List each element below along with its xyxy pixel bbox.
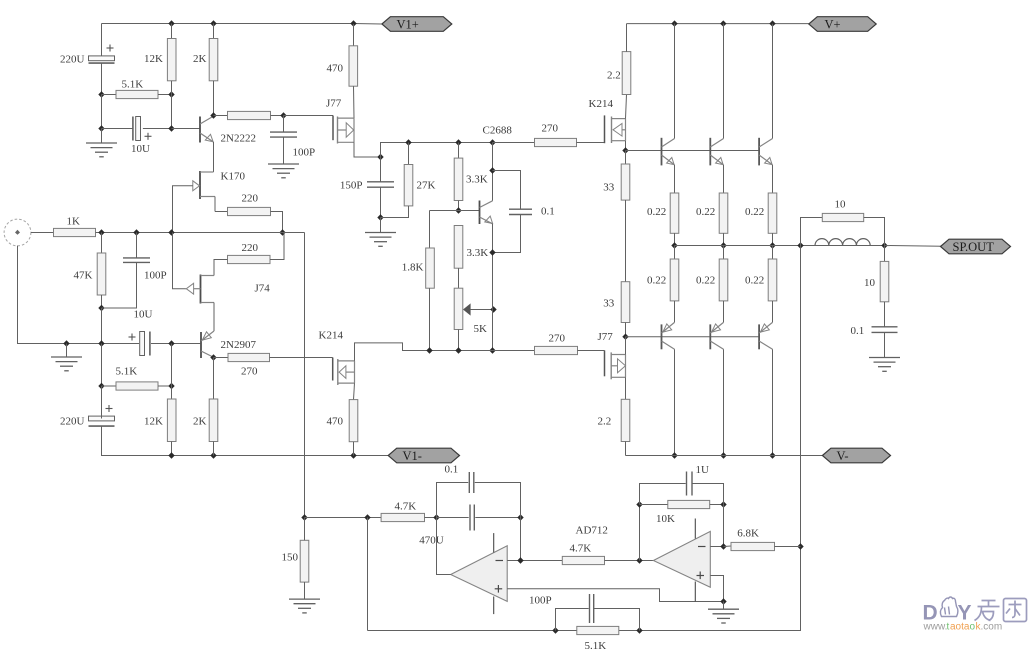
wire to J77 gate node: [271, 115, 284, 117]
node U1B out: [636, 557, 642, 563]
designator J77 (top): [326, 98, 342, 110]
node opamp A out/fb: [433, 514, 439, 520]
wire V1+ rail to port: [354, 23, 382, 26]
wire 27K bottom: [381, 206, 409, 218]
wire J74 source drop: [213, 303, 215, 332]
node 5.1K left (top): [98, 91, 104, 97]
wire 0.1 fb right: [475, 483, 521, 518]
wire K170 source: [214, 197, 216, 212]
wire 100P bottom: [102, 262, 137, 308]
svg-text:SP.OUT: SP.OUT: [953, 240, 995, 254]
wire emitter NPN1: [674, 165, 676, 193]
wire 0.22 to out rail 1: [674, 233, 676, 245]
op-amp U1B (AD712): [653, 519, 710, 602]
wire C2688 emitter drop: [492, 224, 494, 351]
value 2.2 (bottom): [598, 416, 612, 428]
value 0.1 (zobel): [851, 325, 865, 337]
wire 100P left drop: [136, 233, 138, 258]
svg-text:K214: K214: [589, 98, 614, 110]
wire K214b source: [354, 383, 355, 400]
node fb rail/100P left: [552, 627, 558, 633]
svg-text:www.: www.: [923, 622, 948, 633]
svg-text:220: 220: [242, 242, 259, 254]
svg-text:220U: 220U: [60, 416, 85, 428]
svg-text:2N2222: 2N2222: [221, 133, 256, 145]
transistor C2688: [480, 201, 493, 225]
value 27K: [417, 180, 436, 192]
node 10K/1U left: [636, 501, 642, 507]
svg-text:470U: 470U: [419, 535, 444, 547]
capacitor 10U (bottom): [129, 332, 150, 356]
svg-text:3.3K: 3.3K: [466, 174, 488, 186]
designator C2688: [483, 125, 513, 137]
wire 10R loop: [801, 218, 823, 246]
wire K214 source: [625, 141, 627, 151]
node 2N2907 collector: [210, 354, 216, 360]
svg-text:33: 33: [603, 298, 615, 310]
wire 10U node to 2N2222 base: [172, 128, 200, 130]
svg-text:J74: J74: [255, 283, 271, 295]
svg-text:4.7K: 4.7K: [395, 501, 417, 513]
wire U1A plus input: [507, 589, 723, 602]
value 10U (top): [131, 143, 150, 155]
value 4.7K (servo input): [395, 501, 417, 513]
resistor 0.22 (top 1): [670, 193, 679, 233]
wire V1+ rail: [102, 23, 354, 25]
wire 220U top: [101, 24, 103, 57]
node out/zobel: [881, 242, 887, 248]
value 100P (feedback): [529, 595, 552, 607]
wire 1U right: [692, 484, 724, 505]
value 47K: [74, 270, 93, 282]
svg-text:10K: 10K: [656, 513, 675, 525]
power port V-: [822, 448, 890, 463]
wire 5.1K right stub (top): [158, 94, 172, 96]
wire U1A minus input: [507, 560, 562, 562]
svg-text:10U: 10U: [134, 309, 153, 321]
wire collector column PNP3: [772, 349, 774, 455]
wire 2K to 2N2222 collector: [213, 81, 215, 116]
wire fb rail riser: [367, 518, 369, 631]
resistor 6.8K: [731, 542, 775, 550]
svg-text:1K: 1K: [67, 216, 81, 228]
designator 2N2907: [221, 339, 257, 351]
svg-text:.com: .com: [981, 622, 1003, 633]
wire 6.8K to feedback: [775, 546, 801, 548]
node attenuator tap: [301, 514, 307, 520]
svg-text:0.22: 0.22: [696, 275, 715, 287]
resistor 2.2 (top): [622, 52, 631, 95]
node 150P/27K gnd: [377, 214, 383, 220]
wire 2K to rail (bottom): [213, 442, 215, 456]
node lower rail/1.8K: [426, 347, 432, 353]
capacitor 100P (input): [123, 258, 150, 263]
wire J74 gate: [173, 233, 187, 289]
value 3.3K (lower): [467, 247, 489, 259]
resistor 47K: [97, 253, 106, 295]
svg-text:5.1K: 5.1K: [585, 640, 607, 652]
value 10 (zobel): [864, 277, 876, 289]
svg-text:270: 270: [241, 366, 258, 378]
wire 2.2b to V- rail: [625, 442, 627, 456]
wire J77 gate: [284, 115, 334, 117]
wire driver rail top: [381, 143, 535, 182]
designator K214 (top): [589, 98, 614, 110]
wire 220U to 5.1K node: [101, 63, 103, 94]
svg-text:V-: V-: [837, 449, 849, 463]
wire 220 J74 right: [270, 233, 284, 260]
value 2K (bottom): [193, 416, 207, 428]
svg-text:2.2: 2.2: [598, 416, 612, 428]
wire 150P bottom: [380, 187, 382, 217]
resistor 3.3K (lower): [454, 226, 463, 269]
resistor 5.1K (top): [116, 90, 158, 98]
svg-text:47K: 47K: [74, 270, 93, 282]
wire 5K wiper: [470, 309, 493, 311]
svg-text:2N2907: 2N2907: [221, 339, 257, 351]
svg-text:4.7K: 4.7K: [570, 543, 592, 555]
wire V- rail: [626, 455, 823, 457]
svg-text:12K: 12K: [144, 53, 163, 65]
designator 2N2222: [221, 133, 256, 145]
value 1.8K: [402, 262, 424, 274]
svg-text:470: 470: [327, 416, 344, 428]
wire ground branch left (top): [101, 95, 103, 129]
wire rail to 270 (top): [493, 142, 535, 144]
resistor 33 (upper): [621, 164, 630, 200]
wire U1A output: [437, 518, 451, 575]
wire 10K right stub: [710, 504, 724, 506]
wire minus riser B: [723, 505, 725, 547]
wire 10R loop right: [864, 218, 885, 246]
svg-text:220: 220: [242, 193, 259, 205]
ground (below 100P): [268, 164, 299, 178]
svg-text:1U: 1U: [696, 464, 710, 476]
wire 1U left: [640, 484, 686, 505]
designator AD712: [576, 525, 608, 537]
wire 3.3K to base node: [458, 201, 460, 211]
resistor 220 (J74 drain): [228, 255, 271, 263]
wire 33 upper stub: [625, 151, 627, 165]
wire 270b to J77 gate: [578, 350, 605, 352]
resistor 4.7K (servo input): [381, 513, 424, 521]
svg-text:2K: 2K: [193, 53, 207, 65]
value 270 (top driver): [542, 123, 559, 135]
resistor 3.3K (upper): [454, 158, 463, 200]
resistor 1.8K: [426, 248, 435, 288]
wire emitter NPN3: [772, 165, 774, 193]
svg-text:AD712: AD712: [576, 525, 608, 537]
designator J77 (bottom): [598, 331, 614, 343]
value 2.2 (top): [607, 70, 621, 82]
wire input to 1K: [31, 232, 54, 234]
node 10U right (top): [168, 125, 174, 131]
value 2K (top): [193, 53, 207, 65]
value 0.22 (bottom 3): [745, 275, 764, 287]
wire collector column PNP1: [674, 349, 676, 455]
svg-text:J77: J77: [598, 331, 614, 343]
svg-text:100P: 100P: [144, 270, 167, 282]
svg-text:10: 10: [835, 199, 847, 211]
capacitor 1U: [687, 472, 693, 496]
wire 12K to rail (bottom): [171, 442, 173, 456]
svg-text:6.8K: 6.8K: [737, 528, 759, 540]
value 150: [282, 552, 299, 564]
transistor 2N2222: [200, 116, 214, 142]
value 100P (compensation): [293, 147, 316, 159]
wire 0.22 to out rail 2: [723, 233, 725, 245]
wire 10K left stub: [640, 504, 668, 506]
resistor 0.22 (bottom 2): [719, 259, 728, 301]
wire 1.8K bottom: [429, 288, 431, 350]
wire 150 gnd stem: [304, 582, 306, 599]
transistor J77 (bottom driver): [605, 350, 626, 379]
resistor 2K (top): [209, 39, 218, 81]
wire emitter PNP2: [723, 301, 725, 323]
wire 33 to bottom bias node: [625, 323, 627, 337]
node servo in/fb: [364, 514, 370, 520]
wire 470 top stub: [353, 24, 355, 46]
value 0.1 (C2688): [541, 206, 555, 218]
capacitor 10U (top): [133, 117, 152, 141]
resistor 10K: [668, 500, 710, 508]
value 220U (bottom): [60, 416, 85, 428]
wire 3.3K lower to 5K: [458, 268, 460, 288]
potentiometer wiper arrow 5K: [464, 304, 470, 314]
svg-text:270: 270: [542, 123, 559, 135]
wire left column mid: [101, 308, 103, 344]
capacitor 150P: [367, 182, 394, 187]
wire 10U right stub (top): [143, 128, 172, 130]
wire feedback vertical: [368, 246, 801, 631]
resistor 27K: [404, 165, 413, 206]
svg-text:100P: 100P: [293, 147, 316, 159]
wire J77b drain up: [625, 337, 627, 355]
ground (input shield): [51, 357, 82, 371]
wire plus gnd stem: [723, 602, 725, 610]
resistor 470 (top): [349, 46, 358, 86]
node V- rail c2: [720, 452, 726, 458]
wire emitter NPN2: [723, 165, 725, 193]
value 5.1K (bottom): [116, 366, 138, 378]
svg-text:5K: 5K: [474, 323, 488, 335]
svg-text:0.22: 0.22: [647, 206, 666, 218]
wire 2K top stub: [213, 24, 215, 39]
node C2688 base: [455, 207, 461, 213]
transistor J77 (top driver): [333, 116, 354, 144]
resistor 33 (lower): [621, 282, 630, 323]
wire collector column PNP2: [723, 349, 725, 455]
resistor 10 (zobel): [880, 261, 889, 301]
node V- rail c3: [769, 452, 775, 458]
svg-text:150: 150: [282, 552, 299, 564]
transistor output NPN2: [710, 138, 723, 166]
node V1- rail/470: [350, 452, 356, 458]
node lower rail/5K: [455, 347, 461, 353]
transistor J74: [186, 275, 214, 304]
node feedback/6.8K: [797, 543, 803, 549]
node 10U right (bottom): [168, 340, 174, 346]
svg-text:0.1: 0.1: [541, 206, 555, 218]
capacitor 470U: [470, 505, 474, 531]
svg-text:27K: 27K: [417, 180, 436, 192]
wire input node row: [96, 232, 305, 234]
wire collector stub 2N2222: [214, 115, 228, 117]
svg-text:0.22: 0.22: [647, 275, 666, 287]
node V1- rail/2K: [210, 452, 216, 458]
capacitor 220U (top): [89, 45, 115, 64]
wire 220U to rail corner: [102, 426, 389, 455]
resistor 12K (bottom): [167, 399, 176, 442]
value 1U: [696, 464, 710, 476]
value 100P (input): [144, 270, 167, 282]
svg-text:3.3K: 3.3K: [467, 247, 489, 259]
wire 270 to K214 gate (top): [577, 142, 605, 144]
wire 100P fb right: [594, 609, 640, 631]
wire 10R zobel stub: [884, 246, 886, 262]
wire 33 series: [625, 200, 627, 282]
ground (op-amp plus): [708, 609, 739, 623]
wire attenuator vertical: [304, 233, 306, 518]
node U1B minus/6.8K: [720, 543, 726, 549]
value 1K: [67, 216, 81, 228]
value 270 (2N2907): [241, 366, 258, 378]
wire J77b source: [625, 377, 627, 399]
capacitor 0.1 (servo fb): [469, 472, 474, 493]
wire zobel gnd stem: [884, 332, 886, 357]
wire collector column NPN2: [723, 24, 725, 139]
node rail/27K: [405, 139, 411, 145]
value 10K: [656, 513, 675, 525]
wire 100P to ground: [283, 137, 285, 164]
svg-text:0.22: 0.22: [745, 206, 764, 218]
wire to U1B output node: [605, 560, 654, 562]
wire 12K top stub: [171, 24, 173, 39]
svg-text:33: 33: [603, 182, 615, 194]
wire 0.1 top stub: [493, 171, 521, 210]
transistor K214 (bottom driver): [333, 358, 355, 386]
value 33 (upper): [603, 182, 615, 194]
wire 220 right to node: [271, 212, 283, 233]
resistor 0.22 (top 2): [719, 193, 728, 233]
designator J74: [255, 283, 271, 295]
resistor 220 (K170 source): [228, 207, 271, 215]
value 10 (parallel): [835, 199, 847, 211]
svg-text:2K: 2K: [193, 416, 207, 428]
wire ground stem (10U top): [101, 129, 103, 144]
wire 2N2907 collector drop: [213, 358, 215, 400]
node 10U left (top): [98, 125, 104, 131]
power port V1-: [388, 448, 459, 463]
value 0.1 (servo fb): [445, 464, 459, 476]
node base row / shield: [63, 340, 69, 346]
value 220 (J74): [242, 242, 259, 254]
wire 470 to J77 drain: [353, 86, 356, 118]
wire 5.1K left stub (top): [102, 94, 117, 96]
node U1A minus: [517, 557, 523, 563]
wire 3.3K top stub: [458, 143, 460, 159]
wire 270 left stub (2N2907): [214, 357, 229, 359]
wire 0.22 to out rail 3: [772, 233, 774, 245]
svg-text:K170: K170: [221, 171, 246, 183]
wire rail to SP.OUT: [885, 245, 943, 248]
svg-text:J77: J77: [326, 98, 342, 110]
transistor K214 (top driver): [605, 115, 626, 143]
resistor 5K (pot): [454, 288, 463, 329]
wire 5K bottom: [458, 330, 460, 351]
node out rail 1: [671, 242, 677, 248]
value 150P: [340, 180, 363, 192]
svg-text:0.1: 0.1: [445, 464, 459, 476]
resistor 10 (parallel): [822, 213, 863, 221]
svg-text:V+: V+: [825, 17, 841, 31]
value 3.3K (upper): [466, 174, 488, 186]
node 47K/100P bottom: [98, 305, 104, 311]
wire 0.22 lower stub 2: [723, 246, 725, 260]
node input/100P: [133, 229, 139, 235]
node 220 pair junction: [279, 229, 285, 235]
resistor 270 (top driver): [535, 138, 577, 146]
power port SP.OUT: [941, 239, 1011, 254]
wire J77 source: [354, 142, 381, 157]
svg-text:aota: aota: [950, 622, 970, 633]
node V- rail c1: [671, 452, 677, 458]
wire output rail: [675, 245, 885, 247]
node top rail / 2K: [210, 20, 216, 26]
ground (below 10U top): [86, 143, 117, 157]
wire 270 to K214 gate: [270, 357, 333, 359]
wire 47K bottom: [101, 295, 103, 308]
value 220 (K170): [242, 193, 259, 205]
value 470 (top): [327, 63, 344, 75]
wire 2N2222 emitter drop: [213, 142, 215, 172]
wire U1B minus input: [710, 546, 723, 548]
wire collector column NPN1: [674, 24, 676, 139]
wire 0.22 lower stub 1: [674, 246, 676, 260]
svg-text:K214: K214: [319, 330, 344, 342]
node out/feedback: [797, 242, 803, 248]
inductor L1: [815, 239, 870, 246]
wire 150P ground stem: [380, 218, 382, 233]
designator K170: [221, 171, 246, 183]
wire 470b to rail: [353, 442, 355, 456]
watermark URL: [923, 622, 1003, 633]
node top rail / 12K: [168, 20, 174, 26]
capacitor 0.1 (zobel): [872, 327, 898, 333]
wire 470U right stub: [475, 517, 520, 519]
node out rail 2: [720, 242, 726, 248]
transistor output PNP2: [710, 322, 723, 349]
wire 47K top stub: [101, 233, 103, 254]
wire 171 col mid: [171, 344, 173, 387]
resistor 270 (2N2907 collector): [228, 353, 270, 361]
node input/47K: [98, 229, 104, 235]
resistor 470 (bottom): [349, 400, 358, 442]
node bottom bias node: [622, 334, 628, 340]
svg-text:0.22: 0.22: [745, 275, 764, 287]
node rail/3.3K: [455, 139, 461, 145]
value 5K (pot): [474, 323, 488, 335]
wire V+ rail: [627, 23, 809, 25]
node plus/ground: [720, 598, 726, 604]
wire 100P drop (right): [283, 116, 285, 133]
designator K214 (bottom): [319, 330, 344, 342]
svg-text:270: 270: [549, 333, 566, 345]
node top bias node: [622, 147, 628, 153]
wire 0.1 bottom stub: [493, 215, 521, 253]
value 12K (bottom): [144, 416, 163, 428]
wire shield ground stem: [66, 344, 68, 358]
